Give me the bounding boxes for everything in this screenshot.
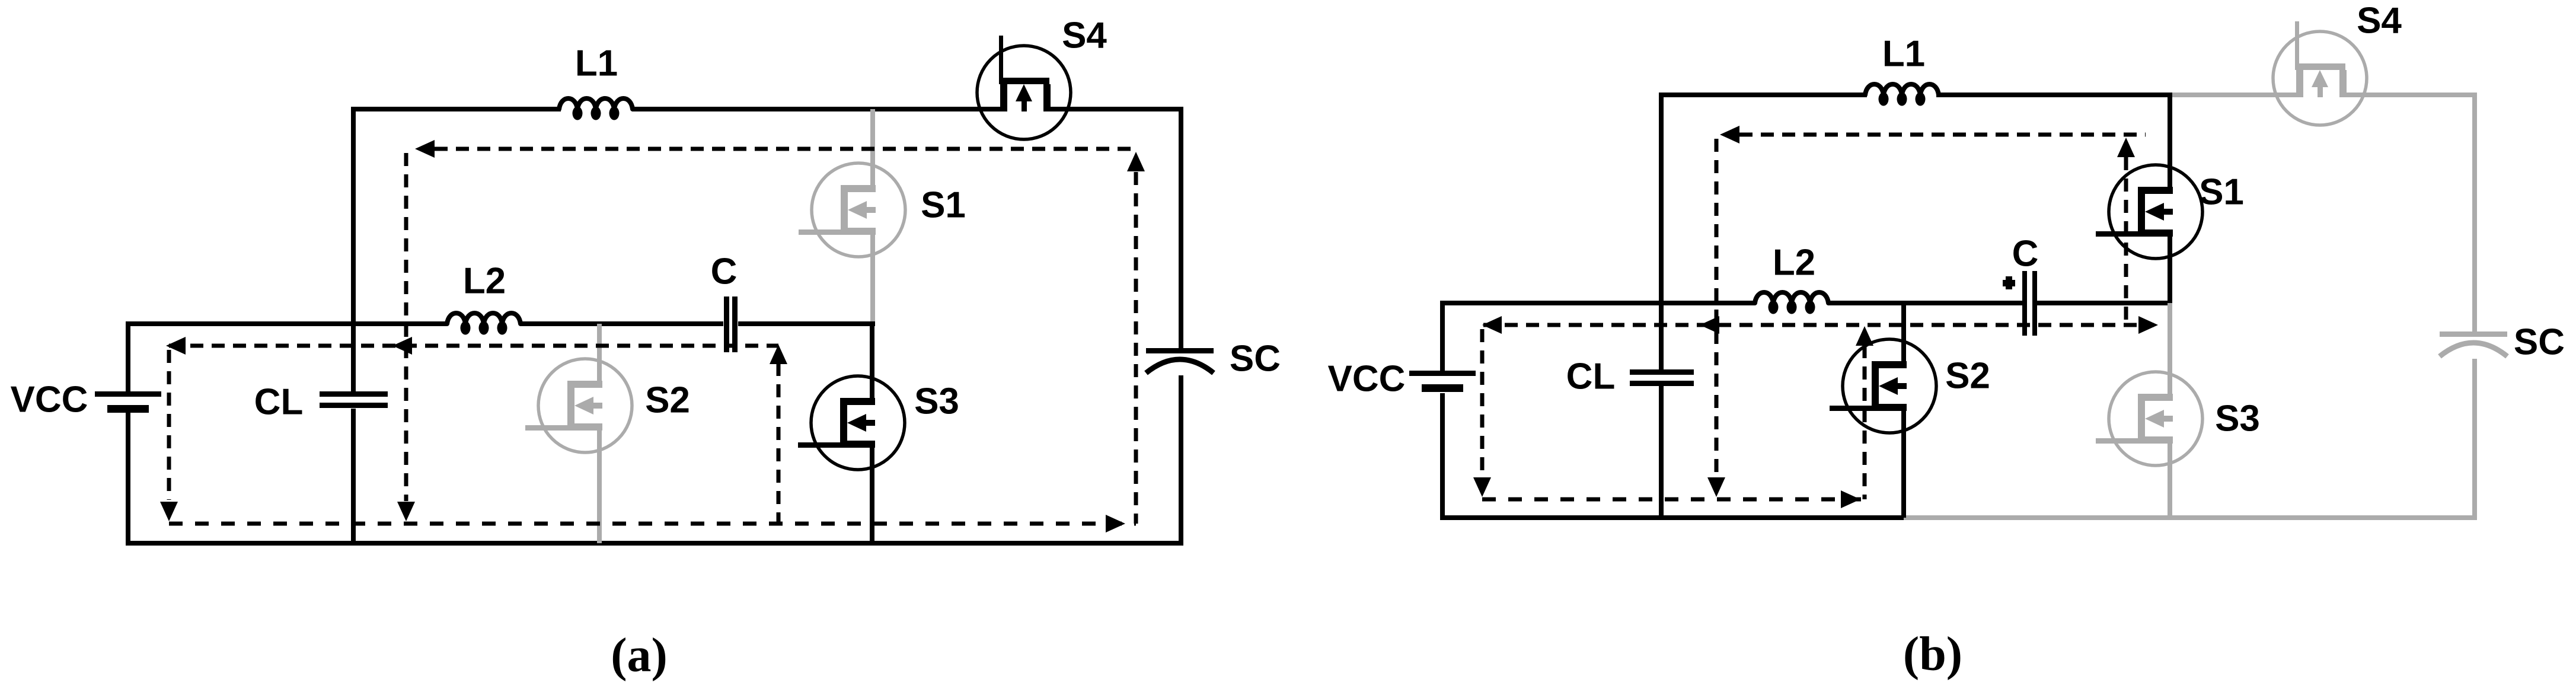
wire (a) right vertical below SC bbox=[1179, 375, 1183, 543]
svg-text:S1: S1 bbox=[921, 185, 966, 226]
dashed loop (a) left vertical x=685 with down arrow bbox=[397, 153, 415, 521]
svg-text:CL: CL bbox=[1566, 356, 1616, 397]
wire (b) CL branch vertical upper bbox=[1659, 93, 1664, 369]
dashed loop (b) mid horizontal with arrows bbox=[1482, 316, 2158, 334]
wire (a) middle rail between L2 and C bbox=[520, 321, 723, 326]
dashed loop (a) mid horizontal with two left arrows bbox=[166, 337, 778, 355]
svg-text:S3: S3 bbox=[2215, 398, 2260, 439]
capacitor C (b) bbox=[2012, 234, 2039, 336]
mosfet S3 (a) bbox=[798, 321, 959, 543]
capacitor CL (b) bbox=[1566, 356, 1694, 397]
wire (b) top rail gray right of S4 bbox=[2339, 93, 2475, 97]
capacitor SC (b) gray/off bbox=[2440, 322, 2565, 363]
svg-text:C: C bbox=[711, 251, 738, 292]
dashed loop (b) bottom horizontal with right arrow bbox=[1482, 490, 1865, 508]
inductor L2 (b) bbox=[1755, 243, 1828, 314]
wire (a) CL branch vertical upper bbox=[351, 107, 356, 391]
inductor L2 (a) bbox=[447, 261, 521, 335]
svg-text:S2: S2 bbox=[1945, 356, 1990, 397]
svg-text:S4: S4 bbox=[1062, 15, 1107, 56]
dashed loop (a) top horizontal with left arrow bbox=[415, 140, 1136, 158]
svg-text:S2: S2 bbox=[645, 380, 690, 421]
svg-text:C: C bbox=[2012, 234, 2039, 275]
wire (b) middle rail left of L2 bbox=[1440, 301, 1755, 305]
wire (a) top rail segment left of L1 bbox=[353, 107, 561, 111]
wire (b) top rail left of L1 bbox=[1661, 93, 1867, 97]
inductor L1 (a) bbox=[559, 43, 633, 120]
wire (a) top rail between L1 and S4 bbox=[632, 107, 1007, 111]
svg-text:VCC: VCC bbox=[1328, 359, 1406, 400]
dashed loop (b) vertical x=3145 with up arrow bbox=[1856, 326, 1873, 499]
wire (b) top rail gray left of S4 bbox=[2170, 93, 2303, 97]
capacitor SC (a) bbox=[1146, 339, 1281, 380]
dashed loop (a) right vertical x=1916 with up arrow bbox=[1127, 152, 1145, 524]
wire (b) middle rail right of C bbox=[2036, 301, 2172, 305]
svg-text:SC: SC bbox=[2514, 322, 2565, 363]
svg-text:L1: L1 bbox=[1882, 34, 1925, 75]
wire (a) left vertical above battery bbox=[126, 321, 130, 391]
mosfet S4 (b) gray/off bbox=[2273, 1, 2402, 126]
wire (a) middle rail left of L2 bbox=[126, 321, 447, 326]
wire (b) CL branch vertical lower bbox=[1659, 386, 1664, 520]
mosfet S1 (b) bbox=[2096, 93, 2244, 303]
wire (b) left vertical below battery bbox=[1440, 393, 1445, 520]
wire (a) left vertical below battery bbox=[126, 413, 130, 546]
wire (b) middle rail between L2 and C bbox=[1828, 301, 2022, 305]
wire (b) top rail between L1 and S1 bbox=[1936, 93, 2172, 97]
svg-text:S4: S4 bbox=[2357, 1, 2402, 42]
wire (a) CL branch vertical lower bbox=[351, 409, 356, 546]
battery VCC (b) bbox=[1328, 359, 1476, 400]
caption (b) bbox=[1903, 627, 1962, 681]
dashed loop (b) top horizontal with left arrow bbox=[1720, 126, 2146, 144]
wire (a) right vertical above SC bbox=[1179, 107, 1183, 348]
inductor L1 (b) bbox=[1865, 34, 1939, 106]
capacitor CL (a) bbox=[254, 382, 388, 423]
mosfet S3 (b) gray/off bbox=[2096, 303, 2260, 518]
wire (a) top rail right of S4 bbox=[1044, 107, 1181, 111]
mosfet S2 (b) bbox=[1830, 301, 1990, 518]
mosfet S4 (a) bbox=[977, 15, 1107, 140]
svg-text:L2: L2 bbox=[463, 261, 506, 302]
wire (b) right vertical gray below SC bbox=[2472, 359, 2477, 518]
wire (b) bottom rail black bbox=[1440, 515, 1906, 520]
wire (b) bottom rail gray bbox=[1904, 515, 2477, 520]
svg-text:VCC: VCC bbox=[11, 380, 88, 420]
mosfet S2 (a) gray/off bbox=[525, 324, 690, 543]
dashed loop (a) vertical x=1313 with up arrow bbox=[770, 345, 787, 524]
svg-text:L2: L2 bbox=[1773, 243, 1815, 283]
wire (b) right vertical gray above SC bbox=[2472, 93, 2477, 331]
mosfet S1 (a) gray/off bbox=[799, 109, 966, 321]
dashed loop (b) vertical x=3586 with up arrow bbox=[2117, 138, 2135, 325]
battery VCC (a) bbox=[11, 380, 161, 420]
capacitor C (a) bbox=[711, 251, 738, 353]
svg-text:S1: S1 bbox=[2199, 172, 2244, 213]
svg-text:L1: L1 bbox=[575, 43, 618, 84]
caption (a) bbox=[611, 628, 668, 682]
svg-text:CL: CL bbox=[254, 382, 304, 423]
dashed loop (a) vcc vertical x=285 with down arrow bbox=[160, 350, 178, 521]
svg-text:(a): (a) bbox=[611, 628, 668, 682]
svg-text:SC: SC bbox=[1230, 339, 1281, 380]
dashed loop (b) vertical x=2895 with down arrow bbox=[1707, 139, 1725, 497]
dashed loop (b) vcc vertical x=2500 with down arrow bbox=[1473, 329, 1491, 497]
polarity mark of C (b) bbox=[2003, 276, 2015, 289]
dashed loop (a) bottom horizontal with right arrow bbox=[169, 515, 1136, 533]
wire (a) bottom rail bbox=[126, 541, 1183, 546]
svg-text:S3: S3 bbox=[914, 381, 959, 422]
svg-text:(b): (b) bbox=[1903, 627, 1962, 681]
wire (b) left vertical above battery bbox=[1440, 301, 1445, 371]
wire (a) middle rail right of C bbox=[738, 321, 875, 326]
